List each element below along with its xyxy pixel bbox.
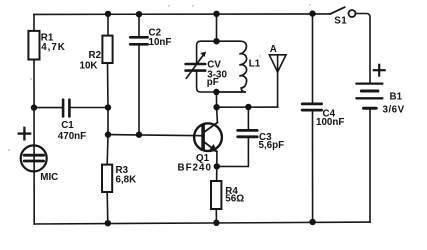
- wire node to antenna / C3: [217, 106, 278, 108]
- switch S1 contact: [349, 10, 356, 17]
- capacitor C2: [130, 37, 147, 44]
- arrow of CV: [186, 53, 204, 78]
- tank circuit frame with CV left side: [197, 41, 217, 63]
- wire C2 branch top: [138, 14, 140, 36]
- resistor R2: [102, 36, 112, 63]
- wire battery to bottom rail: [369, 110, 371, 222]
- svg-text:BF240: BF240: [178, 162, 212, 173]
- svg-text:S1: S1: [334, 16, 347, 27]
- svg-text:10nF: 10nF: [149, 37, 172, 48]
- node C1 left: [31, 104, 37, 110]
- wire R1 to MIC to bottom: [33, 60, 35, 225]
- switch S1 lever: [330, 7, 344, 14]
- node R3 bottom: [105, 220, 111, 226]
- battery B1: [356, 84, 382, 109]
- node base left: [105, 131, 111, 137]
- node C4 bottom: [309, 219, 315, 225]
- svg-text:L1: L1: [249, 58, 261, 69]
- wire C2 bottom to base wire: [138, 46, 140, 135]
- svg-text:C1: C1: [61, 120, 74, 131]
- node R4 bottom: [213, 220, 219, 226]
- node C1 right: [105, 104, 111, 110]
- wire S1 to right corner: [356, 14, 371, 83]
- svg-text:MIC: MIC: [40, 172, 58, 183]
- svg-text:3/6V: 3/6V: [383, 105, 405, 116]
- wire C3 branch: [247, 107, 249, 129]
- resistor R3: [102, 165, 112, 192]
- wire C1 left: [34, 107, 62, 109]
- wire C4 branch top: [312, 14, 314, 103]
- wire C1 right: [71, 107, 108, 109]
- inductor L1: [216, 41, 246, 92]
- node C4 top: [309, 10, 315, 16]
- wire collector branch: tank bottom to Q1: [216, 92, 217, 123]
- node emitter: [214, 163, 220, 169]
- capacitor CV plates: [186, 64, 206, 71]
- wire tank branch from top rail: [216, 14, 218, 41]
- svg-text:pF: pF: [207, 77, 219, 88]
- wire left rail upper: [33, 14, 35, 31]
- wire C4 bottom to rail: [312, 112, 314, 222]
- svg-text:100nF: 100nF: [316, 117, 344, 128]
- wire R2 branch top: [107, 14, 109, 36]
- wire antenna feed: [277, 72, 279, 107]
- node collector: [213, 104, 219, 110]
- svg-text:6,8K: 6,8K: [116, 175, 137, 186]
- capacitor C1: [63, 100, 69, 117]
- node C3 top: [245, 104, 251, 110]
- wire R4 to bottom rail: [215, 209, 217, 223]
- wire R3 to bottom rail: [106, 192, 109, 223]
- svg-text:470nF: 470nF: [58, 131, 86, 142]
- wire emitter node to R4: [216, 166, 218, 181]
- svg-text:5,6pF: 5,6pF: [259, 140, 285, 151]
- wire base of Q1: [108, 135, 201, 136]
- svg-text:A: A: [270, 44, 277, 55]
- node C2 top: [136, 11, 142, 17]
- wire emitter down: [216, 152, 218, 167]
- scan speckles: [8, 4, 311, 151]
- wire C3 bottom to emitter node: [217, 138, 249, 166]
- plus sign of MIC: [19, 128, 31, 140]
- wire bottom rail: [34, 222, 370, 224]
- svg-text:10K: 10K: [80, 60, 98, 71]
- node tank bottom junction: [213, 89, 219, 95]
- resistor R1: [28, 31, 39, 60]
- wire top rail: [34, 13, 330, 16]
- node tank top: [213, 11, 219, 17]
- capacitor C3: [238, 130, 258, 136]
- wire R2 bottom to node: [107, 63, 110, 135]
- wire node to R3: [106, 135, 109, 165]
- antenna A: [269, 55, 286, 72]
- svg-text:4,7K: 4,7K: [41, 42, 66, 53]
- resistor R4: [211, 181, 221, 209]
- node R2 top: [105, 11, 111, 17]
- microphone MIC: [21, 145, 47, 171]
- node tank top junction: [213, 38, 219, 44]
- transistor Q1: [194, 123, 222, 151]
- plus sign of B1: [374, 65, 385, 76]
- svg-text:56Ω: 56Ω: [225, 194, 244, 205]
- capacitor C4: [302, 104, 321, 110]
- svg-text:B1: B1: [390, 92, 403, 103]
- node C2 bottom: [136, 132, 142, 138]
